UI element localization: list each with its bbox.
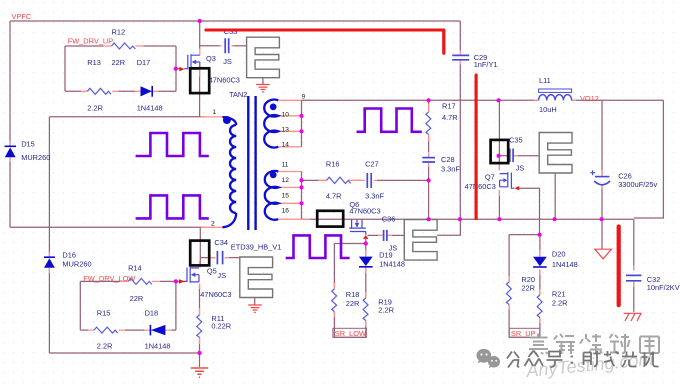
red arrow Q6 gate (363, 235, 368, 239)
wire Q3 pin stubs (200, 46, 234, 77)
wire C33 right (232, 45, 247, 47)
svg-text:R12: R12 (112, 27, 126, 36)
svg-text:MUR260: MUR260 (62, 259, 91, 268)
wire D16 leads (48, 252, 50, 273)
red arrow Q7 gate (514, 186, 519, 190)
wire FW_DRV_LOW box left (79, 281, 81, 330)
wire L11 leads (534, 99, 576, 101)
capacitor C33 (225, 38, 229, 53)
resistor R19 (363, 298, 368, 321)
red arrow Q3 gate (179, 67, 184, 71)
svg-text:10: 10 (282, 111, 290, 118)
resistor R17 (426, 112, 431, 135)
wire FW_DRV_LOW box right (175, 281, 177, 330)
wire R15 D18 leads (88, 329, 171, 331)
svg-text:Q3: Q3 (206, 54, 216, 63)
wire R17 C28 vertical (428, 100, 430, 219)
svg-text:22R: 22R (112, 58, 126, 67)
svg-text:2: 2 (211, 221, 215, 228)
waveform marker 1 (136, 133, 209, 156)
wire R17 leads (428, 104, 430, 167)
svg-text:22R: 22R (346, 299, 360, 308)
capacitor C34 (217, 251, 222, 265)
wire SR_UP bottom (509, 336, 540, 338)
diode D15 (5, 146, 17, 157)
wire D19 leads (365, 250, 367, 326)
capacitor C35 (510, 149, 513, 163)
black rect C35 (491, 140, 509, 163)
svg-text:0.22R: 0.22R (211, 322, 231, 331)
wire pin2 horizontal (10, 226, 206, 228)
diode D18 (150, 325, 165, 336)
capacitor C36 (384, 230, 387, 241)
wire Q5 gate stub (176, 280, 179, 282)
svg-text:C34: C34 (214, 238, 228, 247)
svg-text:16: 16 (282, 208, 290, 215)
transformer right winding 11-16 (265, 171, 279, 220)
svg-text:2.2R: 2.2R (378, 305, 394, 314)
svg-text:47N60C3: 47N60C3 (349, 207, 380, 216)
svg-text:R17: R17 (442, 102, 456, 111)
transformer phase dots (223, 116, 231, 124)
resistor R20 (506, 282, 511, 305)
wire R18 branch (333, 244, 335, 338)
wire bottom-left rail (49, 352, 199, 354)
resistor R13 (87, 88, 111, 94)
wire R11 leads (199, 308, 201, 344)
wire D20 leads (539, 250, 541, 323)
wire FW_DRV_LOW box top (80, 280, 176, 282)
svg-text:C28: C28 (441, 155, 455, 164)
svg-text:C36: C36 (382, 214, 396, 223)
inductor L11 (539, 89, 572, 100)
svg-text:1N4148: 1N4148 (137, 104, 163, 113)
thick red emphasis lines (206, 30, 619, 305)
black rect Q3 (190, 68, 209, 93)
wire Q5 pin stubs (200, 258, 230, 289)
wire pin1 horizontal (49, 116, 206, 118)
ground earth C32 (624, 313, 642, 321)
transformer right winding 9-14 (264, 100, 278, 148)
svg-text:2.2R: 2.2R (87, 104, 103, 113)
svg-text:R15: R15 (97, 309, 111, 318)
wire C34 left (200, 257, 215, 259)
svg-text:JS: JS (217, 271, 226, 280)
wire Q6 gate drop (365, 239, 367, 257)
black rect Q6 (317, 211, 343, 227)
wire C36 left (368, 234, 383, 236)
resistor R14 (128, 278, 152, 284)
wire VPFC left vertical (9, 21, 11, 227)
wire R14 leads (120, 280, 160, 282)
heatsink JS Q6 (404, 220, 437, 261)
watermark big gray CJK 嘉峪检测网 (529, 334, 659, 355)
wire R20 branch (508, 235, 510, 338)
resistor R18 (332, 289, 337, 312)
resistor R12 (112, 43, 136, 49)
wire ground bus (302, 218, 634, 220)
mosfet Q7 (500, 172, 515, 188)
wire collector 11-16 (301, 172, 303, 220)
svg-text:R21: R21 (552, 290, 566, 299)
svg-text:D18: D18 (145, 309, 159, 318)
wire C26 leads (601, 170, 603, 189)
svg-text:2.2R: 2.2R (552, 298, 568, 307)
svg-text:10nF/2KV: 10nF/2KV (647, 283, 680, 292)
svg-text:4.7R: 4.7R (326, 192, 342, 201)
wire pin stubs 9-14 (278, 100, 301, 147)
wire R18 tee (334, 243, 365, 245)
wire C35 right (514, 155, 540, 157)
svg-text:1N4148: 1N4148 (145, 342, 171, 351)
wire red elbow top (206, 30, 444, 53)
salmon pin stubs (10, 46, 634, 344)
svg-text:D15: D15 (21, 139, 35, 148)
svg-text:10uH: 10uH (539, 105, 557, 114)
wire pin16 stub right (302, 218, 311, 220)
svg-text:47N60C3: 47N60C3 (209, 75, 240, 84)
wire D16 vertical (48, 117, 50, 353)
wire secondary top rail VO12 (302, 99, 664, 101)
capacitor C28 (422, 158, 435, 162)
wire C32 drop (633, 219, 635, 312)
heatsink JS Q3 (247, 37, 280, 77)
transformer core (248, 96, 255, 230)
heatsink JS Q5 (240, 257, 273, 298)
wire C26 top lead (601, 100, 603, 176)
wire Q7 gate drop (519, 188, 540, 234)
svg-text:JS: JS (223, 57, 232, 66)
ground R11 (191, 368, 208, 377)
wire collector 9-14 (301, 100, 303, 147)
wire red overdraw elbow (206, 30, 476, 219)
wire C26 bottom lead (601, 184, 603, 219)
wire SR_LOW bottom (334, 336, 366, 338)
svg-text:FW_DRV_UP: FW_DRV_UP (68, 36, 114, 45)
black rect Q5 (190, 241, 209, 266)
wire SR_UP top link (509, 234, 539, 236)
svg-text:15: 15 (282, 192, 290, 199)
svg-text:FW_DRV_LOW: FW_DRV_LOW (83, 274, 135, 283)
wire Q3 drain (199, 21, 201, 49)
ground heatsink1 (256, 85, 270, 92)
watermark wechat icon (476, 349, 500, 368)
wire FW_DRV_UP box left (64, 46, 66, 91)
svg-text:TAN2: TAN2 (229, 90, 247, 99)
node SR_LOW (333, 328, 367, 338)
svg-text:C35: C35 (509, 135, 523, 144)
mosfet Q5 (183, 267, 199, 283)
svg-text:1N4148: 1N4148 (552, 260, 578, 269)
waveform marker 2 (136, 195, 209, 218)
svg-text:L11: L11 (539, 76, 551, 85)
resistor R21 (537, 295, 542, 318)
watermark gray CJK 公众号 融创芯城 (507, 351, 659, 368)
svg-text:R16: R16 (326, 159, 340, 168)
svg-text:VO12: VO12 (580, 94, 599, 103)
wire R11 ground stem (199, 353, 201, 367)
wire red vertical right (617, 227, 621, 306)
diode D16 (44, 257, 55, 268)
wire C36 right (388, 234, 405, 236)
svg-text:C27: C27 (365, 159, 379, 168)
capacitor C32 (626, 275, 641, 280)
wire Q5 source / R11 (199, 284, 201, 353)
svg-text:22R: 22R (130, 294, 144, 303)
wire D15 leads (9, 141, 11, 162)
red arrow Q5 gate (179, 279, 185, 283)
wire heatsink3 to bus (437, 219, 460, 235)
svg-text:2.2R: 2.2R (97, 342, 113, 351)
svg-text:22R: 22R (521, 284, 535, 293)
heatsink JS Q7 (539, 133, 572, 174)
waveform marker 4 (286, 235, 350, 258)
wire R20 leads (508, 276, 510, 310)
svg-text:R20: R20 (521, 275, 535, 284)
svg-text:D20: D20 (552, 250, 566, 259)
wire FW_DRV_UP box bottom (65, 90, 176, 92)
wire C35 left (499, 155, 509, 157)
wire R19 D19 branch (365, 268, 367, 338)
svg-text:D17: D17 (137, 58, 151, 67)
mosfet Q6 (349, 220, 366, 235)
svg-text:D19: D19 (379, 250, 393, 259)
resistor R15 (94, 327, 118, 333)
svg-text:14: 14 (282, 142, 290, 149)
diode D19 (359, 257, 373, 267)
svg-text:Q5: Q5 (207, 266, 217, 275)
wire red vertical mid (475, 75, 478, 219)
waveform marker 3 (357, 109, 422, 132)
svg-text:SR_LOW: SR_LOW (335, 329, 366, 338)
wire C29 leads (459, 51, 461, 65)
wire C34 right (225, 257, 240, 259)
wire Q7 drain vertical (498, 100, 500, 170)
diode D20 (533, 257, 547, 267)
svg-text:R13: R13 (87, 58, 101, 67)
wire C33 left (200, 45, 222, 47)
resistor R11 (197, 315, 202, 338)
wire R13 D17 leads (81, 90, 158, 92)
svg-text:4.7R: 4.7R (442, 113, 458, 122)
wire C32 leads (633, 265, 635, 287)
wire VO12 right drop (634, 100, 663, 218)
wire Q5 drain (199, 227, 201, 267)
diode D17 (141, 86, 153, 97)
capacitor C27 (367, 173, 371, 188)
svg-text:1nF/Y1: 1nF/Y1 (474, 60, 498, 69)
wire Q3 gate stub (176, 68, 180, 70)
svg-text:9: 9 (302, 94, 306, 101)
svg-text:JS: JS (516, 164, 525, 173)
wire Q3 source (199, 70, 201, 117)
svg-text:11: 11 (282, 161, 289, 168)
svg-text:3300uF/25v: 3300uF/25v (618, 180, 657, 189)
wire pin2 stub (201, 226, 223, 228)
svg-text:VPFC: VPFC (12, 12, 32, 21)
svg-text:MUR260: MUR260 (21, 153, 50, 162)
svg-text:47N60C3: 47N60C3 (200, 290, 231, 299)
wire R18 leads (333, 283, 335, 317)
wire R21 D20 branch (539, 235, 541, 338)
svg-text:ETD39_HB_V1: ETD39_HB_V1 (231, 242, 282, 251)
svg-text:47N60C3: 47N60C3 (465, 182, 496, 191)
wire Q7 source vertical (498, 190, 500, 219)
wire heatsink4 lead (554, 173, 556, 219)
wire C36 leads (378, 234, 392, 236)
ground heatsink2 (248, 305, 262, 312)
capacitor C26 electrolytic (590, 170, 610, 185)
mosfet Q3 (184, 54, 200, 70)
wire heatsink2 lead (254, 298, 256, 306)
ground triangle C26 (595, 249, 612, 259)
svg-text:3.3nF: 3.3nF (365, 192, 384, 201)
wire Q7 pin stubs (499, 156, 518, 196)
svg-text:1N4148: 1N4148 (379, 259, 405, 268)
svg-text:R18: R18 (346, 290, 360, 299)
svg-text:3.3nF: 3.3nF (441, 165, 460, 174)
wire FW_DRV_LOW box bottom (80, 329, 176, 331)
wire pin1 stub (200, 116, 222, 118)
transformer TAN2 left winding (223, 117, 237, 227)
svg-text:13: 13 (282, 127, 290, 134)
node SR_UP (509, 328, 540, 338)
wire triangle ground lead (601, 219, 603, 249)
svg-text:R14: R14 (128, 263, 142, 272)
WATERMARK (476, 334, 659, 382)
wire FW_DRV_UP box right (175, 46, 177, 91)
capacitor C29 (452, 55, 469, 59)
wire C29 branch vertical (459, 21, 461, 219)
wire VPFC top rail (10, 20, 460, 22)
wire pin stubs 11-16 (278, 172, 301, 220)
svg-text:1: 1 (213, 109, 217, 116)
wire heatsink1 lead (262, 78, 264, 85)
wire R16 C27 leads (319, 179, 378, 181)
svg-text:D16: D16 (62, 251, 76, 260)
svg-text:Q7: Q7 (485, 173, 495, 182)
wire FW_DRV_UP box top (65, 45, 176, 47)
resistor R16 (327, 177, 351, 183)
wire R16 row (304, 179, 429, 181)
wire R12 leads (104, 45, 144, 47)
svg-text:12: 12 (282, 177, 290, 184)
